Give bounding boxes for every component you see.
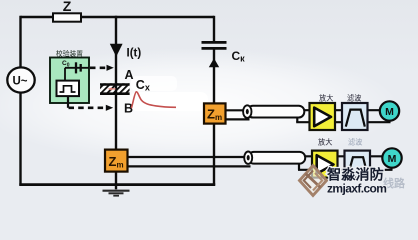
svg-text:Z: Z bbox=[63, 0, 72, 14]
svg-text:滤波: 滤波 bbox=[347, 94, 361, 103]
svg-text:I(t): I(t) bbox=[127, 48, 142, 60]
svg-text:滤波: 滤波 bbox=[348, 138, 362, 147]
svg-text:B: B bbox=[124, 102, 133, 116]
svg-text:zmjaxf.com: zmjaxf.com bbox=[327, 181, 386, 195]
svg-text:U~: U~ bbox=[12, 76, 27, 88]
svg-text:线路: 线路 bbox=[383, 176, 406, 190]
svg-text:M: M bbox=[385, 106, 394, 118]
svg-text:放大: 放大 bbox=[319, 94, 333, 103]
svg-text:M: M bbox=[388, 153, 397, 165]
svg-text:校验装置: 校验装置 bbox=[56, 49, 83, 58]
svg-text:放大: 放大 bbox=[318, 138, 332, 147]
svg-text:A: A bbox=[125, 68, 134, 82]
